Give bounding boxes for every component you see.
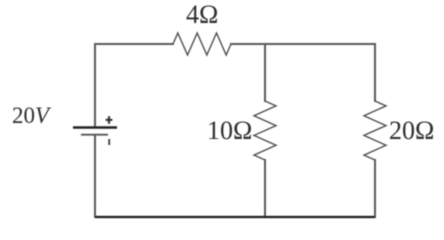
svg-text:20Ω: 20Ω	[389, 116, 434, 145]
svg-text:4Ω: 4Ω	[186, 0, 218, 29]
svg-text:20V: 20V	[12, 103, 52, 128]
svg-text:10Ω: 10Ω	[207, 116, 252, 145]
